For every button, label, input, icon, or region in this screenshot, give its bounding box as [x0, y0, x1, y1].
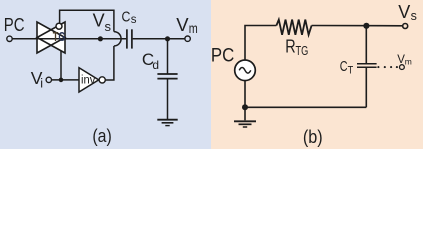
svg-text:i: i	[40, 77, 43, 91]
resistor RTG	[276, 20, 311, 35]
svg-text:m: m	[405, 56, 412, 66]
wire: junction to ground	[244, 107, 246, 120]
dotted link CT to Vm	[377, 66, 398, 68]
sine wave in source	[239, 68, 251, 74]
TG control bubble	[56, 23, 62, 29]
svg-text:(b): (b)	[303, 127, 323, 147]
wire: resistor to Vs terminal	[312, 25, 403, 27]
svg-text:PC: PC	[4, 14, 25, 35]
wire: Vi rail to inverter input	[51, 79, 79, 81]
terminal Vm (b)	[400, 65, 405, 70]
node junction dot at Vi	[59, 78, 64, 83]
wire: Vi junction up to TG bottom	[60, 40, 62, 80]
svg-text:R: R	[285, 36, 295, 57]
svg-text:C: C	[340, 58, 348, 75]
svg-text:TG: TG	[296, 43, 309, 58]
svg-text:d: d	[152, 58, 159, 72]
svg-text:T: T	[348, 65, 354, 77]
wire: control drop hop over signal wire	[114, 32, 121, 46]
inverter output bubble	[99, 77, 105, 83]
wire: Cd to ground	[167, 79, 169, 120]
svg-text:V: V	[398, 2, 410, 22]
terminal Vs (b)	[403, 24, 408, 29]
wire: top control rail (bubble to drop)	[60, 10, 114, 31]
wire: Cs right to Vm	[133, 38, 185, 40]
wire: signal line through TG	[37, 38, 65, 40]
wire: top rail source to resistor	[245, 26, 276, 61]
svg-text:V: V	[176, 14, 189, 35]
capacitor Cs	[127, 29, 132, 48]
AC source PC (b)	[235, 60, 256, 81]
terminal Vi	[46, 77, 51, 82]
node junction dot at Cd	[165, 36, 170, 41]
svg-text:inv: inv	[81, 74, 96, 86]
svg-text:m: m	[189, 21, 198, 36]
wire: main signal rail PC to Cs	[12, 38, 126, 40]
panel (b) background	[211, 0, 423, 149]
terminal PC (a)	[7, 36, 12, 41]
node Vs dot	[98, 36, 103, 41]
inverter U1	[79, 68, 99, 92]
node junction dot top (b)	[363, 23, 369, 29]
svg-text:s: s	[411, 9, 417, 23]
svg-text:C: C	[122, 9, 131, 26]
capacitor CT	[357, 64, 377, 67]
ground (a)	[157, 120, 177, 126]
capacitor Cd	[157, 74, 177, 79]
svg-text:s: s	[131, 14, 137, 26]
transmission gate TG	[37, 22, 65, 53]
ground (b)	[234, 121, 256, 127]
wire: bottom rail	[245, 106, 366, 108]
wire: junction down to Cd	[167, 39, 169, 74]
svg-text:s: s	[105, 19, 112, 34]
wire: junction down to CT top	[365, 26, 367, 64]
wire: right riser to CT bottom	[365, 67, 367, 107]
svg-text:V: V	[93, 11, 105, 31]
svg-text:TG: TG	[53, 30, 66, 44]
terminal Vm (a)	[185, 36, 190, 41]
svg-text:(a): (a)	[92, 126, 111, 146]
wire: source bottom to ground junction	[244, 81, 246, 108]
wire: control drop to inverter output	[105, 46, 114, 80]
panel (a) background	[0, 0, 211, 149]
svg-text:PC: PC	[211, 45, 234, 66]
node junction dot bottom (b)	[242, 104, 248, 110]
